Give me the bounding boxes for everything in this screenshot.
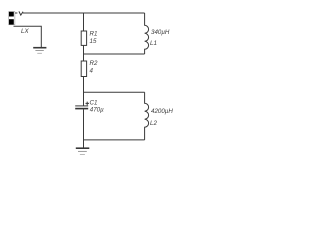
- svg-text:4: 4: [90, 67, 94, 74]
- svg-text:L2: L2: [150, 120, 157, 127]
- svg-text:R1: R1: [90, 31, 98, 38]
- svg-text:15: 15: [90, 38, 97, 45]
- svg-text:4200µH: 4200µH: [151, 108, 173, 115]
- svg-text:340µH: 340µH: [151, 29, 170, 36]
- svg-text:LX: LX: [21, 28, 29, 35]
- svg-text:C1: C1: [90, 99, 98, 106]
- svg-text:R2: R2: [90, 60, 98, 67]
- svg-text:L1: L1: [150, 40, 157, 47]
- svg-text:470µ: 470µ: [90, 106, 104, 113]
